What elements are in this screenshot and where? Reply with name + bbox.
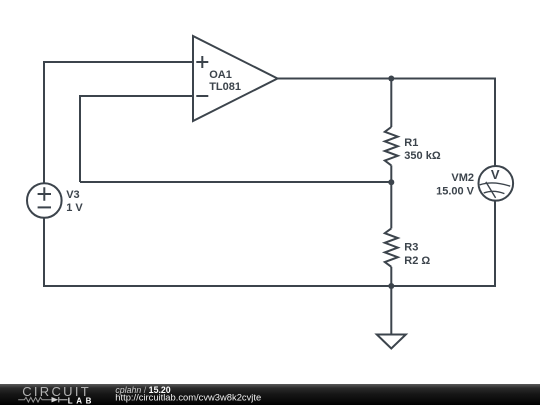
logo diode bar <box>59 397 68 402</box>
wire right vertical top <box>494 78 496 167</box>
svg-text:R2 Ω: R2 Ω <box>404 255 430 267</box>
node ground junction <box>388 283 394 289</box>
svg-text:http://circuitlab.com/cvw3w8k2: http://circuitlab.com/cvw3w8k2cvjte <box>115 392 261 403</box>
resistor R3 <box>385 182 398 286</box>
svg-text:OA1: OA1 <box>209 69 232 81</box>
wire right vertical bottom <box>494 200 496 287</box>
voltage source V3 <box>27 183 62 218</box>
logo diode <box>52 397 59 402</box>
svg-text:VM2: VM2 <box>451 172 474 184</box>
wire left vertical to V3 top <box>43 61 45 184</box>
svg-text:R3: R3 <box>404 242 418 254</box>
voltmeter VM2 <box>479 166 514 201</box>
wire noninverting input <box>44 61 193 63</box>
wire op-amp output <box>278 78 497 80</box>
svg-text:R1: R1 <box>404 137 418 149</box>
wire feedback horizontal <box>80 181 391 183</box>
node output junction <box>388 76 394 82</box>
svg-text:TL081: TL081 <box>209 81 241 93</box>
wire feedback vertical <box>79 95 81 182</box>
logo resistor squiggle <box>18 397 51 402</box>
svg-text:15.00 V: 15.00 V <box>436 186 475 198</box>
ground <box>377 335 406 349</box>
svg-text:350 kΩ: 350 kΩ <box>404 150 441 162</box>
svg-text:V3: V3 <box>66 189 79 201</box>
svg-text:V: V <box>491 167 500 182</box>
resistor R1 <box>385 79 398 183</box>
op-amp OA1 <box>193 36 278 121</box>
wire ground stub <box>390 286 392 335</box>
svg-text:1 V: 1 V <box>66 202 83 214</box>
wire inverting input <box>80 95 193 97</box>
wire bottom rail <box>43 285 496 287</box>
node feedback junction <box>388 179 394 185</box>
wire V3 bottom <box>43 218 45 287</box>
svg-text:LAB: LAB <box>68 396 95 405</box>
